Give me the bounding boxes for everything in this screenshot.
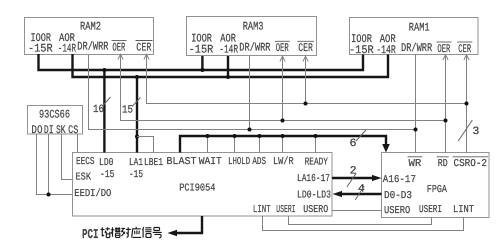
svg-text:LBE1: LBE1 [144,157,163,169]
arrow into RAM2 OER [118,54,123,59]
wire USERI loop [289,216,432,225]
svg-text:RAM2: RAM2 [80,21,101,34]
junction RAM3 WR [248,128,252,132]
wire LA bus vertical to PCI9054 LA1-15 [136,77,138,153]
wire RAM3 DR/WRR drop [249,56,251,130]
wire RAM1 OER vertical to FPGA RD [445,55,447,153]
wire LINT loop [263,216,464,231]
junction LW/R on bus 6 [281,134,285,138]
wire WAIT stub [207,136,209,153]
bus slash 6 [356,130,366,141]
svg-text:LD0: LD0 [99,157,114,169]
svg-text:LA1: LA1 [129,157,143,169]
svg-text:RAM3: RAM3 [243,21,264,34]
RAM1 [349,18,478,57]
bus slash 2 [347,173,356,187]
svg-text:FPGA: FPGA [427,184,448,196]
svg-text:6: 6 [350,138,357,150]
svg-text:PCI: PCI [82,228,99,243]
junction WR line end [414,128,418,132]
svg-text:93CS66: 93CS66 [39,109,70,122]
bus slash 16 [103,97,111,106]
bus slash 4 [355,186,364,200]
svg-text:LA16-17: LA16-17 [297,173,330,185]
svg-text:USERI: USERI [419,204,442,216]
wire RAM3 A0R drop [227,56,229,77]
wire 93CS66 CS to EECS [77,134,79,153]
arrow into RAM3 CER [303,56,308,61]
svg-text:-14R: -14R [219,43,238,56]
svg-text:CSRO-2: CSRO-2 [454,158,488,170]
wire LW/R stub [282,136,284,153]
junction RAM3 addr [226,75,230,79]
svg-text:ADS: ADS [252,156,266,168]
svg-text:2: 2 [350,165,357,177]
svg-text:LINT: LINT [253,204,271,216]
arrow into RAM1 OER [443,55,448,60]
svg-text:OER: OER [112,41,125,54]
svg-text:EECS: EECS [76,156,95,168]
wire RAM3 OER drop [282,56,284,121]
wire ADS stub [259,136,261,153]
svg-text:DR/WRR: DR/WRR [401,42,432,55]
wire RAM3 IO0R drop [201,56,203,70]
wire LHOLD stub [234,136,236,153]
control bus 6 signals bold [180,136,386,153]
svg-text:USERI: USERI [276,204,295,216]
arrow bus 2 LA16-17 to A16-17 [332,177,374,179]
EEPROM 93CS66 [28,106,83,138]
svg-text:-15R: -15R [189,43,214,56]
bus slash 15 [132,98,141,107]
svg-text:A16-17: A16-17 [383,174,416,186]
svg-text:WAIT: WAIT [199,156,222,168]
junction LHOLD on bus 6 [233,134,237,138]
glyph cao [111,227,121,237]
wire LBE1 branch [137,137,154,153]
arrow into RAM2 CER [144,54,149,59]
bus slash 3 [458,120,472,141]
svg-text:-15R: -15R [28,42,53,55]
svg-text:CS: CS [68,124,78,137]
svg-text:-14R: -14R [58,42,76,55]
junction RAM3 data [200,68,204,72]
junction RAM3 OER [281,119,285,123]
junction READY on bus 6 [314,134,318,138]
glyph cha [101,227,111,237]
svg-text:LHOLD: LHOLD [228,156,250,168]
wire READY stub [315,136,317,153]
arrow bus 4 D0-D3 to LD0-LD3 [341,193,382,195]
glyph ying [132,227,141,238]
junction OER line end [444,119,448,123]
junction WAIT on bus 6 [206,134,210,138]
junction ADS on bus 6 [258,134,262,138]
arrow into RAM1 CER [464,55,469,60]
svg-text:PCI9054: PCI9054 [179,183,215,195]
glyph xin [142,227,151,238]
svg-text:CER: CER [136,41,151,54]
svg-text:DR/WRR: DR/WRR [239,41,270,54]
wire CER net to FPGA CSR0-2 [147,55,467,104]
svg-text:D0-D3: D0-D3 [384,190,412,202]
wire USERO direct [332,210,382,212]
glyph hao [153,228,162,238]
FPGA [382,153,490,218]
wire RAM1 DR/WRR vertical to FPGA WR [415,55,417,153]
junction LA bus top [135,75,139,79]
RAM3 [187,17,317,57]
wire RAM1 CER vertical to FPGA CSR0-2 [466,55,468,153]
arrow PCI slot signals [176,216,202,233]
junction CER line end [465,102,469,106]
svg-text:CER: CER [458,43,471,56]
svg-text:3: 3 [472,126,479,138]
svg-text:USERO: USERO [384,205,410,217]
svg-text:SK: SK [56,124,65,137]
svg-text:RD: RD [438,158,448,170]
arrowhead into FPGA top [382,144,390,153]
svg-text:LW/R: LW/R [273,156,294,168]
svg-text:-14R: -14R [376,44,396,57]
wire 93CS66 DI drop [48,134,50,195]
svg-text:OER: OER [437,43,450,56]
wire OER net to FPGA RD [121,55,446,121]
junction RAM3 CER [304,102,308,106]
RAM2 [25,18,154,56]
wire data bus horizontal 16-bit [39,54,364,70]
svg-text:EEDI/DO: EEDI/DO [74,188,111,200]
svg-text:-15: -15 [100,169,115,181]
svg-text:READY: READY [305,157,329,169]
wire RAM3 CER drop [305,56,307,104]
wire 93CS66 SK to ESK [62,134,73,180]
wire address bus horizontal 15-bit [73,54,389,77]
svg-text:ESK: ESK [76,172,92,184]
svg-text:RAM1: RAM1 [409,21,430,34]
svg-text:USERO: USERO [303,204,328,216]
svg-text:LD0-LD3: LD0-LD3 [297,190,331,202]
glyph dui [121,227,131,237]
label PCI slot chinese text [82,228,99,243]
svg-text:BLAST: BLAST [166,156,196,168]
svg-text:OER: OER [276,42,289,55]
wire WR net to FPGA WR [89,55,416,130]
junction LBE1 branch [135,135,139,139]
chinese glyphs 插槽对应信号 drawn as strokes [101,227,162,238]
junction LD bus [102,68,106,72]
wire LD bus vertical to PCI9054 LD0-15 [103,70,105,153]
svg-text:DR/WRR: DR/WRR [77,41,108,54]
junction DI/DO [47,193,51,197]
wire 93CS66 DO to EEDI/DO [37,134,73,195]
svg-text:LINT: LINT [453,204,474,216]
svg-text:CER: CER [298,42,313,55]
arrow into RAM3 OER [280,56,285,61]
PCI bridge PCI9054 [73,153,333,217]
svg-text:-15: -15 [129,169,143,181]
svg-text:WR: WR [409,158,423,170]
svg-text:-15R: -15R [349,44,374,57]
svg-text:15: 15 [122,105,133,117]
